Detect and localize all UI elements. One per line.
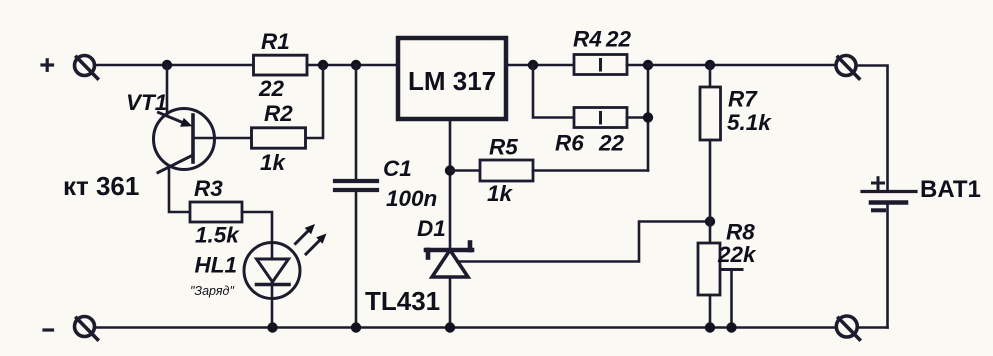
- svg-text:TL431: TL431: [365, 286, 440, 316]
- svg-text:R7: R7: [728, 87, 758, 112]
- + output terminal: [836, 56, 859, 79]
- wire R3 to LED: [242, 212, 272, 243]
- svg-text:D1: D1: [417, 216, 446, 241]
- - input terminal: [75, 317, 98, 340]
- + input terminal: [75, 56, 98, 79]
- wire R6 right lead: [627, 116, 648, 119]
- node: divider junction R7/R8: [705, 216, 715, 226]
- svg-text:VT1: VT1: [126, 90, 167, 115]
- wire R2 branch: node to R2: [306, 65, 324, 138]
- svg-text:22: 22: [605, 27, 632, 52]
- node: R7 branch: [705, 60, 715, 70]
- capacitor C1: [335, 65, 377, 328]
- LED HL1: [244, 243, 300, 328]
- wire top rail right: [648, 64, 836, 67]
- resistor R4: [574, 55, 627, 75]
- svg-text:R1: R1: [261, 29, 290, 54]
- battery BAT1: [862, 192, 916, 328]
- svg-text:R5: R5: [489, 135, 518, 160]
- node: R8 tap ground: [726, 322, 736, 332]
- svg-text:22: 22: [598, 131, 625, 156]
- svg-text:R4: R4: [573, 27, 602, 52]
- svg-text:R8: R8: [726, 220, 755, 245]
- wire output terminal to battery: [857, 66, 888, 191]
- wire collector: VT1 to R3: [169, 167, 190, 212]
- wire R6 branch left: [533, 65, 574, 118]
- resistor R7: [700, 65, 721, 222]
- label - (battery): [873, 208, 884, 212]
- wire LM317 output: [506, 64, 574, 67]
- wire R5 right lead to R4/R6 junction: [533, 169, 648, 172]
- resistor R2: [252, 128, 306, 148]
- wire TL431 reference feedback: [458, 222, 711, 262]
- svg-text:1.5k: 1.5k: [195, 223, 240, 248]
- svg-text:HL1: HL1: [195, 253, 238, 278]
- regulator U1 LM317: [398, 38, 506, 119]
- transistor VT1 (PNP KT361): [154, 109, 215, 173]
- node: LED ground: [267, 322, 277, 332]
- svg-text:C1: C1: [383, 156, 412, 181]
- node: C1 junction: [351, 60, 361, 70]
- wire bottom rail: [96, 326, 836, 329]
- wire emitter: rail to VT1: [166, 65, 169, 116]
- LED arrow 1: [296, 224, 316, 244]
- node: C1 ground: [351, 322, 361, 332]
- resistor R1: [254, 55, 308, 75]
- wire LM317 adjust pin: [449, 119, 452, 249]
- wire R5 left lead: [450, 169, 480, 172]
- shunt regulator D1 TL431: [426, 243, 472, 328]
- node: ADJ/R5 junction: [445, 165, 455, 175]
- svg-text:LM 317: LM 317: [408, 66, 496, 96]
- node: R4 right: [643, 60, 653, 70]
- label + (positive input): [42, 60, 53, 71]
- svg-text:"Заряд": "Заряд": [190, 284, 234, 298]
- svg-text:22k: 22k: [717, 242, 757, 267]
- node: R8 ground: [705, 322, 715, 332]
- node: emitter junction: [162, 60, 172, 70]
- LED arrow 2: [306, 234, 327, 255]
- svg-text:R6: R6: [555, 131, 584, 156]
- node: R1/R2 junction: [318, 60, 328, 70]
- wire top rail: +terminal to LM317 input: [96, 64, 399, 67]
- wire R2 to base: [193, 137, 252, 140]
- resistor R6: [574, 108, 627, 128]
- svg-text:1k: 1k: [487, 181, 514, 206]
- label - (negative input): [44, 328, 53, 331]
- svg-text:22: 22: [258, 76, 285, 101]
- resistor R8 (tapped): [698, 222, 742, 328]
- node: D1 anode ground: [445, 322, 455, 332]
- wire R4 right lead: [627, 64, 648, 67]
- svg-text:5.1k: 5.1k: [727, 110, 772, 135]
- svg-text:R3: R3: [194, 176, 223, 201]
- svg-text:R2: R2: [264, 101, 293, 126]
- node: R6 right: [643, 112, 653, 122]
- svg-text:кт 361: кт 361: [63, 171, 139, 201]
- node: output split R4/R6: [528, 60, 538, 70]
- wire R4/R6 right junction vertical: [647, 65, 650, 171]
- svg-text:BAT1: BAT1: [920, 176, 981, 203]
- resistor R5: [480, 160, 533, 181]
- resistor R3: [190, 202, 242, 222]
- wire bottom rail to battery: [858, 326, 888, 329]
- - output terminal: [836, 316, 859, 340]
- label + (battery): [873, 178, 884, 189]
- svg-text:100n: 100n: [386, 186, 437, 211]
- svg-text:1k: 1k: [260, 150, 287, 175]
